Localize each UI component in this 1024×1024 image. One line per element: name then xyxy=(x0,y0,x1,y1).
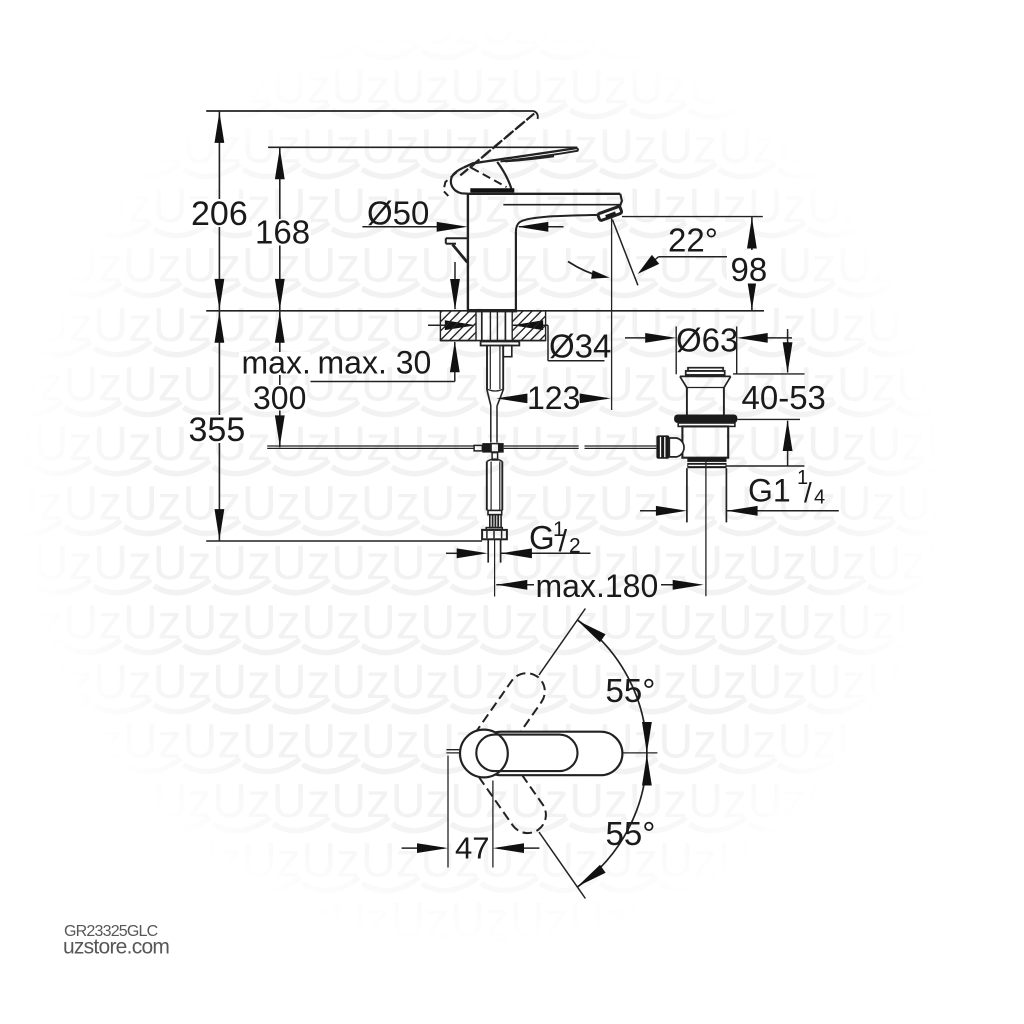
svg-text:355: 355 xyxy=(189,411,246,449)
svg-text:47: 47 xyxy=(455,831,489,866)
svg-text:/: / xyxy=(559,523,568,558)
svg-text:max.: max. xyxy=(242,345,311,381)
svg-text:123: 123 xyxy=(527,380,580,416)
svg-text:4: 4 xyxy=(814,487,825,509)
svg-text:55°: 55° xyxy=(606,815,656,852)
svg-text:G1: G1 xyxy=(748,473,791,509)
svg-text:/: / xyxy=(804,477,812,508)
svg-text:300: 300 xyxy=(253,380,306,416)
svg-text:40-53: 40-53 xyxy=(742,379,826,416)
svg-text:55°: 55° xyxy=(606,672,656,709)
svg-text:22°: 22° xyxy=(668,222,718,259)
svg-text:max. 30: max. 30 xyxy=(318,345,432,381)
svg-text:168: 168 xyxy=(255,214,310,251)
svg-text:Ø63: Ø63 xyxy=(676,322,738,359)
svg-text:2: 2 xyxy=(569,535,581,558)
svg-text:G: G xyxy=(529,519,555,556)
svg-text:206: 206 xyxy=(191,195,248,233)
svg-text:98: 98 xyxy=(731,251,768,288)
svg-text:Ø34: Ø34 xyxy=(549,328,611,365)
svg-text:max.180: max.180 xyxy=(536,568,659,604)
svg-text:Ø50: Ø50 xyxy=(367,195,429,232)
svg-text:uzstore.com: uzstore.com xyxy=(63,936,169,959)
